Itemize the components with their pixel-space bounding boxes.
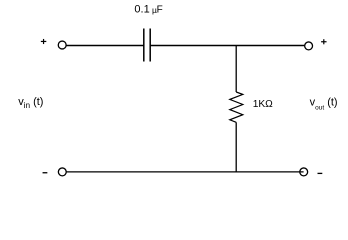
capacitor C1 right plate	[149, 29, 151, 62]
polarity mark: - at output (bottom right)	[318, 173, 323, 174]
capacitor C1 left plate	[143, 29, 145, 62]
terminal: input + (open circle, top left)	[58, 41, 66, 49]
polarity mark: + at input (top left)	[41, 39, 46, 44]
polarity mark: + at output (top right)	[321, 39, 326, 44]
resistor R1 zigzag body	[230, 92, 243, 122]
svg-text:vout (t): vout (t)	[310, 96, 338, 111]
wire: bottom rail (input - terminal to output - terminal)	[67, 171, 304, 173]
terminal: input - (open circle, bottom left)	[58, 168, 66, 176]
wire: resistor R1 bottom lead down to bottom rail	[235, 122, 237, 172]
polarity mark: - at input (bottom left)	[43, 172, 48, 173]
svg-text:vin (t): vin (t)	[18, 96, 43, 110]
svg-text:0.1 µF: 0.1 µF	[134, 4, 162, 16]
terminal: output + (open circle, top right)	[305, 42, 313, 50]
svg-text:1KΩ: 1KΩ	[253, 99, 273, 110]
node A: junction wire from top rail down to resistor	[235, 46, 237, 93]
wire: top rail right segment (capacitor to output + terminal through node A)	[150, 45, 304, 47]
terminal: output - (open circle, bottom right)	[300, 168, 308, 176]
wire: top rail left segment (input + terminal to capacitor)	[66, 45, 143, 47]
